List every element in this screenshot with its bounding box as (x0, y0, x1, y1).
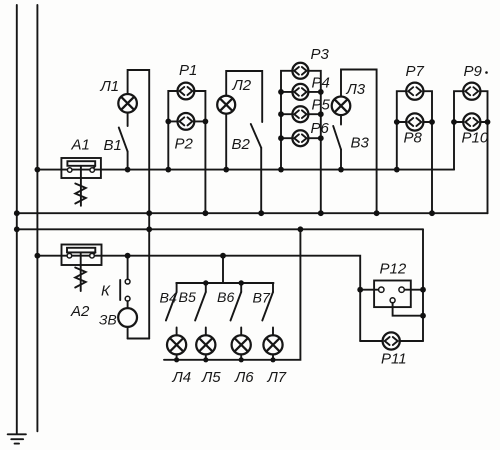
svg-text:Л5: Л5 (201, 369, 221, 386)
svg-text:Л2: Л2 (232, 77, 252, 94)
wire: lamp group feed (222, 256, 224, 283)
lamp L6 (232, 335, 251, 360)
button K: wire (127, 256, 129, 280)
junction dots bus2 (14, 210, 435, 216)
svg-text:Р4: Р4 (312, 75, 330, 92)
wire: lamp group top bus (176, 282, 273, 284)
junction dots P1/P2 (165, 119, 208, 125)
connector P11 (360, 332, 423, 349)
junction dots P7/P8 (394, 119, 435, 125)
svg-text:В3: В3 (351, 135, 370, 152)
branch P7/P8: wires (397, 91, 432, 213)
svg-text:Р12: Р12 (380, 261, 407, 278)
switch V7 (262, 283, 273, 335)
branch P1/P2: wires (168, 91, 205, 213)
socket P12 (360, 281, 423, 316)
connector P8 (406, 113, 423, 130)
connector P7 (406, 83, 423, 100)
connector P10 (463, 113, 480, 130)
svg-text:Р9: Р9 (464, 63, 483, 80)
dot after P9 (485, 71, 488, 74)
ground (8, 434, 26, 443)
svg-text:В4: В4 (160, 291, 177, 307)
svg-text:А1: А1 (71, 137, 90, 154)
svg-text:ЗВ: ЗВ (99, 313, 117, 328)
spring of A1 (75, 166, 86, 206)
branch L3/V3: wire loop (341, 70, 377, 214)
lamp L2 (217, 96, 235, 114)
branch L2/V2: wire loop (226, 71, 262, 122)
wire: left rail (ground rail) (16, 5, 18, 434)
junction dots P3-P6 (278, 89, 324, 141)
svg-text:Р7: Р7 (406, 63, 425, 80)
lamp L5 (196, 335, 215, 360)
connector P2 (178, 113, 195, 130)
wire: bus3 (17, 228, 423, 230)
svg-text:Л6: Л6 (234, 369, 254, 386)
connector P3 (292, 63, 308, 79)
svg-text:Р1: Р1 (179, 62, 197, 79)
switch V1 (119, 113, 128, 170)
button K contacts (120, 279, 130, 301)
svg-text:Р2: Р2 (175, 136, 194, 153)
connector P9 (463, 83, 480, 100)
wire: right drop from bus3 (422, 229, 424, 341)
switch V6 (231, 283, 242, 335)
svg-text:Р6: Р6 (311, 120, 330, 137)
svg-text:Р5: Р5 (312, 97, 331, 114)
breaker A1 (61, 158, 101, 178)
svg-text:Л1: Л1 (100, 78, 120, 95)
svg-text:В1: В1 (104, 137, 122, 154)
wire: A2 feed line (37, 256, 360, 341)
switch V4 (166, 283, 177, 335)
spring of A2 (75, 252, 86, 291)
svg-text:В6: В6 (217, 290, 234, 306)
connector P6 (292, 130, 308, 146)
switch V5 (195, 283, 206, 335)
junction dots P12/P11 (357, 287, 426, 319)
connector P4 (292, 84, 308, 100)
svg-text:В5: В5 (179, 290, 196, 306)
lamp L1 (118, 94, 137, 113)
bell ZV (118, 301, 149, 338)
wire: bus2 (17, 212, 488, 214)
svg-text:Л3: Л3 (346, 81, 366, 98)
switch V3 (333, 115, 341, 170)
svg-text:В2: В2 (232, 136, 251, 153)
svg-text:Р11: Р11 (381, 351, 407, 368)
svg-text:Р8: Р8 (404, 130, 423, 147)
breaker A2 (62, 245, 102, 266)
branch P9/P10: wires (454, 91, 488, 213)
wire: lamp L2 down to bus1 (225, 114, 227, 170)
lamp L3 (332, 97, 351, 116)
wire: right rail (feed rail) (36, 5, 38, 431)
switch V2 (251, 124, 261, 213)
svg-text:Р10: Р10 (462, 130, 489, 147)
svg-text:В7: В7 (253, 291, 271, 307)
lamp L4 (167, 335, 186, 360)
junction dots A2 feed (35, 253, 226, 259)
svg-text:Р3: Р3 (311, 46, 330, 63)
wire: bus1 feed line through A1 (37, 169, 454, 171)
svg-text:Л4: Л4 (172, 369, 192, 386)
svg-text:К: К (101, 283, 111, 300)
branch L1/V1: wire loop top (128, 70, 150, 339)
junction dots lamp group (174, 280, 276, 362)
junction dots bus3 (14, 226, 303, 232)
svg-text:Л7: Л7 (267, 369, 287, 386)
connector P5 (292, 106, 308, 122)
junction dots P9/P10 (451, 119, 490, 125)
connector P1 (178, 83, 195, 100)
branch P3-P6: wires (281, 71, 321, 213)
svg-text:А2: А2 (70, 303, 90, 320)
wire: lamp group bottom bus and riser (164, 229, 300, 359)
lamp L7 (263, 335, 282, 360)
junction dots bus1 (35, 167, 400, 173)
